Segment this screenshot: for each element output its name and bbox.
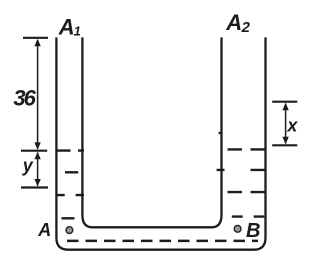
- svg-text:B: B: [246, 220, 260, 242]
- node: arrowhead up (y top): [34, 152, 40, 159]
- wire: dimension tick bottom left: [21, 186, 48, 188]
- svg-text:A: A: [37, 220, 51, 240]
- wire: dimension line 36: [37, 40, 39, 149]
- node: liquid level dashes left arm row 1: [57, 149, 85, 151]
- node: liquid level dashes right arm row 1: [228, 148, 265, 150]
- wire: dimension tick middle left (liquid surface level): [21, 150, 47, 152]
- svg-text:36: 36: [13, 85, 36, 110]
- wire: inner U-tube wall: [82, 37, 221, 227]
- wire: dimension line y: [37, 153, 39, 186]
- node: arrowhead up (x top): [282, 103, 288, 110]
- label A1 (area of left arm): [58, 14, 81, 39]
- node: small tick on right arm left wall: [219, 132, 222, 134]
- node: arrowhead up (36 top): [34, 39, 40, 46]
- wire: dimension line x: [285, 104, 287, 144]
- node: arrowhead down (36 bottom): [34, 142, 40, 149]
- svg-text:A: A: [225, 10, 242, 35]
- svg-text:x: x: [286, 115, 298, 135]
- node: liquid level dashes left arm row 2: [65, 171, 78, 173]
- node B: gray point marker: [234, 225, 241, 232]
- wire: dimension tick top (tube top level): [23, 37, 48, 39]
- node: liquid level dashes bottom channel: [67, 240, 258, 243]
- label A2 (area of right arm): [225, 10, 250, 36]
- node: arrowhead down (x bottom): [282, 137, 288, 144]
- svg-text:y: y: [22, 156, 34, 176]
- node: liquid level dashes left arm row 4: [62, 217, 75, 219]
- wire: dimension tick right top: [272, 101, 297, 103]
- wire: outer U-tube wall: [56, 37, 265, 249]
- svg-text:1: 1: [74, 23, 81, 38]
- wire: dimension tick right bottom: [272, 144, 297, 146]
- svg-text:A: A: [58, 14, 75, 39]
- node: liquid level dashes left arm row 3: [57, 194, 85, 196]
- svg-text:2: 2: [241, 19, 251, 36]
- node: liquid level dashes right arm row 2: [217, 169, 267, 171]
- node: arrowhead down (y bottom): [34, 179, 40, 186]
- node: liquid level dashes right arm row 3: [228, 191, 265, 193]
- node A: gray point marker: [66, 227, 73, 234]
- node: liquid level dashes right arm row 4: [232, 215, 264, 217]
